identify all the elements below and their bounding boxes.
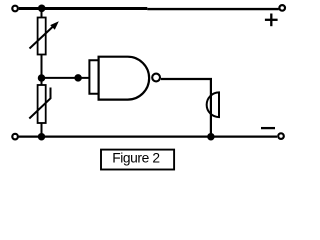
- svg-text:Figure 2: Figure 2: [112, 150, 159, 165]
